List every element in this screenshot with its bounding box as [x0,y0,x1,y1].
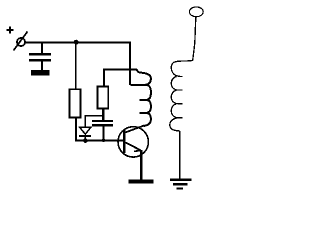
resistor R2 [98,87,109,109]
wire R2 to C2 [102,109,104,121]
capacitor C2 [92,120,113,126]
wire [41,61,43,71]
transistor Q1 [118,125,148,157]
ground bar (C1) [31,70,50,75]
node C2 junction [102,139,106,143]
wire C2 to base rail [102,126,104,140]
wire antenna lead [193,17,196,61]
inductor L2 secondary coil [170,60,193,130]
wire secondary to earth [179,131,181,180]
wire R1 to base rail [76,117,124,140]
battery terminal [17,38,25,46]
inductor L1 primary coil [131,70,151,127]
antenna ball [189,7,203,17]
wire diode anode link [85,116,103,128]
wire supply rail [25,43,130,85]
node junction dot [74,40,79,45]
wire emitter to ground [140,150,142,180]
ground bar (emitter) [129,180,154,184]
earth ground [170,179,192,190]
terminal slash [14,32,28,51]
wire R2 feed [104,69,136,71]
wire R1 feed [75,43,77,90]
plus label + [7,27,14,34]
wire [103,69,105,88]
node diode junction dot [83,138,88,143]
capacitor C1 [29,53,51,61]
resistor R1 [70,89,81,117]
wire C1 stub [41,43,43,54]
diode D1 [79,127,91,141]
